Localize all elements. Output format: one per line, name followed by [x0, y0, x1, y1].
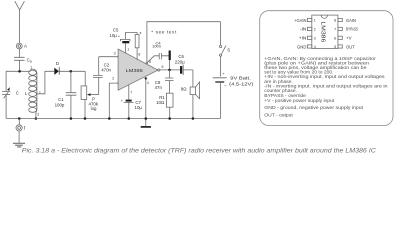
svg-text:−: −	[224, 84, 227, 89]
wire left branch	[5, 71, 7, 91]
IC pin squares left	[307, 18, 311, 48]
svg-text:S: S	[227, 48, 230, 53]
svg-text:GND: GND	[297, 44, 307, 49]
svg-text:10Ω: 10Ω	[156, 100, 165, 105]
svg-text:+IN: +IN	[299, 36, 307, 41]
svg-text:BYPASS - override: BYPASS - override	[264, 93, 306, 99]
wire diode to pot	[59, 70, 85, 72]
svg-text:10µ: 10µ	[135, 105, 143, 110]
svg-text:4: 4	[314, 45, 316, 49]
op-amp U1 LM386	[118, 49, 158, 90]
resistor R1	[166, 93, 173, 118]
capacitor Ca	[14, 49, 25, 71]
svg-text:100n: 100n	[152, 44, 161, 49]
svg-text:2: 2	[314, 27, 316, 31]
svg-text:OUT - output: OUT - output	[264, 113, 293, 119]
node rail E	[18, 117, 21, 120]
svg-text:47n: 47n	[155, 85, 163, 90]
svg-text:a: a	[30, 60, 32, 64]
ground earth symbol	[13, 131, 25, 147]
svg-text:2: 2	[112, 77, 114, 81]
wire antenna row	[6, 69, 31, 71]
svg-text:GND - ground, negative power s: GND - ground, negative power supply inpu…	[264, 105, 363, 111]
svg-text:Pic. 3.18 a - Electronic diagr: Pic. 3.18 a - Electronic diagram of the …	[22, 148, 376, 155]
svg-text:D: D	[56, 61, 59, 66]
capacitor Ca label	[27, 57, 32, 63]
svg-text:5: 5	[162, 65, 164, 69]
svg-text:+V - positive power supply inp: +V - positive power supply input	[264, 98, 334, 104]
IC pin numbers left	[314, 19, 316, 50]
node pin6 circle	[146, 62, 148, 64]
capacitor C2 label	[101, 62, 111, 72]
svg-text:3: 3	[114, 51, 116, 55]
svg-text:GAIN: GAIN	[346, 18, 356, 23]
capacitor C5	[120, 32, 137, 53]
svg-text:C5: C5	[113, 27, 119, 32]
node rail speaker	[192, 117, 195, 120]
svg-text:+: +	[118, 34, 121, 39]
wire pin 6 to top rail	[147, 22, 221, 63]
svg-text:C: C	[16, 91, 19, 96]
node antenna junction	[18, 70, 21, 73]
svg-text:4: 4	[147, 81, 149, 85]
wire tap 2 to diode riser	[37, 71, 54, 94]
svg-text:100p: 100p	[55, 102, 65, 107]
resistor R1 label	[156, 95, 165, 105]
svg-text:(4.5-12V): (4.5-12V)	[229, 81, 254, 87]
svg-text:5: 5	[334, 45, 336, 49]
svg-text:C1: C1	[58, 97, 64, 102]
node rail P	[84, 117, 87, 120]
wire pin 4 to ground	[145, 78, 147, 118]
svg-text:7: 7	[334, 27, 336, 31]
IC package LM386	[312, 15, 338, 48]
speaker LS	[190, 70, 199, 119]
svg-text:BYPASS: BYPASS	[346, 27, 358, 32]
node pin2 circle	[118, 82, 120, 84]
svg-text:220µ: 220µ	[175, 59, 185, 64]
svg-text:+GAIN: +GAIN	[294, 18, 306, 23]
node output junction	[168, 69, 171, 72]
svg-text:10µ: 10µ	[109, 33, 117, 38]
node pin4	[145, 77, 147, 79]
wire to pin 3	[99, 56, 118, 58]
svg-text:-IN: -IN	[300, 27, 306, 32]
svg-text:LM386: LM386	[126, 68, 144, 73]
inductor L coil	[29, 69, 37, 118]
svg-text:*: *	[140, 32, 142, 38]
svg-text:2: 2	[39, 91, 41, 95]
svg-text:counter phase.: counter phase.	[264, 88, 297, 94]
svg-text:9V Batt.: 9V Batt.	[230, 76, 250, 82]
node rail C1	[70, 117, 73, 120]
IC pin squares right	[338, 18, 342, 48]
note panel	[260, 11, 393, 126]
svg-text:OUT: OUT	[346, 44, 355, 49]
node E terminal	[16, 119, 22, 132]
wire output row	[158, 69, 180, 71]
svg-text:8Ω: 8Ω	[181, 87, 187, 92]
capacitor C5 label	[109, 27, 120, 38]
node rail R1	[168, 117, 171, 120]
capacitor C1	[66, 71, 77, 118]
svg-text:1: 1	[314, 19, 316, 23]
capacitor C7	[124, 85, 134, 119]
node rail C7	[128, 117, 131, 120]
capacitor C6 label	[175, 54, 185, 64]
svg-text:7: 7	[130, 90, 132, 94]
svg-text:log: log	[91, 106, 97, 111]
svg-text:3: 3	[37, 113, 39, 117]
battery label	[229, 76, 254, 88]
wire ground rail	[6, 118, 220, 120]
svg-text:+V: +V	[346, 36, 352, 41]
variable capacitor C	[2, 87, 10, 118]
capacitor C4 label	[152, 40, 161, 48]
potentiometer P label	[89, 96, 99, 111]
svg-text:* see text: * see text	[151, 29, 177, 35]
note text	[264, 56, 387, 119]
svg-text:A: A	[24, 44, 27, 49]
svg-text:8: 8	[138, 52, 140, 56]
ground chassis tick	[141, 119, 151, 128]
svg-text:L: L	[25, 91, 28, 96]
node rail pin4	[145, 117, 148, 120]
resistor R-star	[135, 32, 139, 59]
wire pin 2 to ground	[109, 83, 118, 118]
svg-text:470n: 470n	[101, 67, 111, 72]
capacitor C2	[93, 57, 103, 95]
svg-text:3: 3	[314, 36, 316, 40]
node pin3 circle	[118, 56, 120, 58]
IC pin numbers right	[334, 19, 336, 50]
wire tap 3 to ground	[35, 117, 38, 120]
node rail pin2	[108, 117, 111, 120]
svg-text:I: I	[23, 127, 26, 132]
svg-text:+: +	[121, 98, 124, 103]
svg-text:+: +	[222, 71, 225, 76]
capacitor C8 label	[155, 80, 163, 90]
capacitor C4	[148, 51, 171, 70]
svg-text:LM386: LM386	[320, 21, 326, 42]
svg-text:1: 1	[127, 47, 129, 51]
IC pin names left	[294, 18, 307, 50]
svg-text:C6: C6	[178, 54, 184, 59]
battery BT1	[213, 78, 227, 119]
node A terminal	[16, 43, 22, 49]
diode D	[54, 67, 59, 75]
potentiometer P	[81, 71, 99, 118]
node diode output	[70, 70, 73, 73]
capacitor C1 label	[55, 97, 65, 107]
capacitor C7 label	[121, 98, 143, 110]
antenna	[15, 1, 25, 43]
svg-text:8: 8	[334, 19, 336, 23]
switch S	[220, 22, 226, 77]
capacitor C6	[180, 65, 193, 75]
svg-text:6: 6	[334, 36, 336, 40]
IC pin names right	[346, 18, 358, 50]
capacitor C8	[165, 70, 174, 93]
